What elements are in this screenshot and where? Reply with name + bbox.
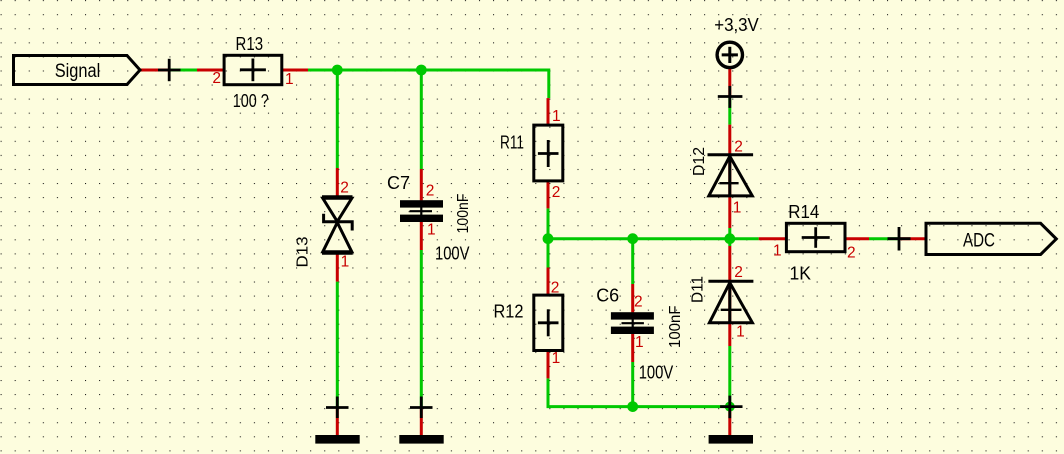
svg-text:2: 2	[734, 264, 743, 281]
svg-text:R11: R11	[500, 133, 524, 153]
svg-text:D13: D13	[295, 236, 312, 267]
svg-text:1K: 1K	[790, 263, 812, 284]
svg-text:100nF: 100nF	[455, 194, 472, 234]
svg-text:Signal: Signal	[55, 61, 101, 82]
svg-text:2: 2	[847, 245, 856, 262]
svg-text:100V: 100V	[639, 362, 674, 383]
svg-text:1: 1	[552, 350, 561, 367]
svg-text:ADC: ADC	[963, 230, 995, 251]
svg-text:D11: D11	[689, 276, 706, 303]
svg-text:R13: R13	[236, 34, 264, 54]
svg-text:2: 2	[551, 279, 560, 296]
svg-text:D12: D12	[691, 147, 708, 176]
svg-text:1: 1	[341, 253, 350, 270]
svg-text:2: 2	[212, 70, 221, 87]
svg-text:100V: 100V	[435, 242, 470, 263]
svg-text:100 ?: 100 ?	[233, 90, 269, 111]
svg-text:C7: C7	[387, 173, 410, 193]
svg-text:+3,3V: +3,3V	[714, 14, 759, 35]
svg-text:C6: C6	[596, 286, 619, 306]
svg-text:1: 1	[773, 243, 782, 260]
svg-text:2: 2	[340, 180, 349, 197]
svg-text:1: 1	[285, 71, 294, 88]
svg-text:2: 2	[552, 184, 561, 201]
svg-text:1: 1	[733, 200, 742, 217]
svg-text:R12: R12	[494, 302, 524, 322]
svg-text:2: 2	[734, 139, 743, 156]
svg-text:1: 1	[427, 222, 436, 239]
svg-text:R14: R14	[788, 202, 819, 222]
svg-text:2: 2	[634, 294, 643, 311]
svg-text:1: 1	[736, 323, 745, 340]
svg-text:2: 2	[426, 183, 435, 200]
svg-text:1: 1	[552, 108, 561, 125]
svg-text:100nF: 100nF	[667, 306, 684, 349]
svg-text:1: 1	[635, 334, 644, 351]
